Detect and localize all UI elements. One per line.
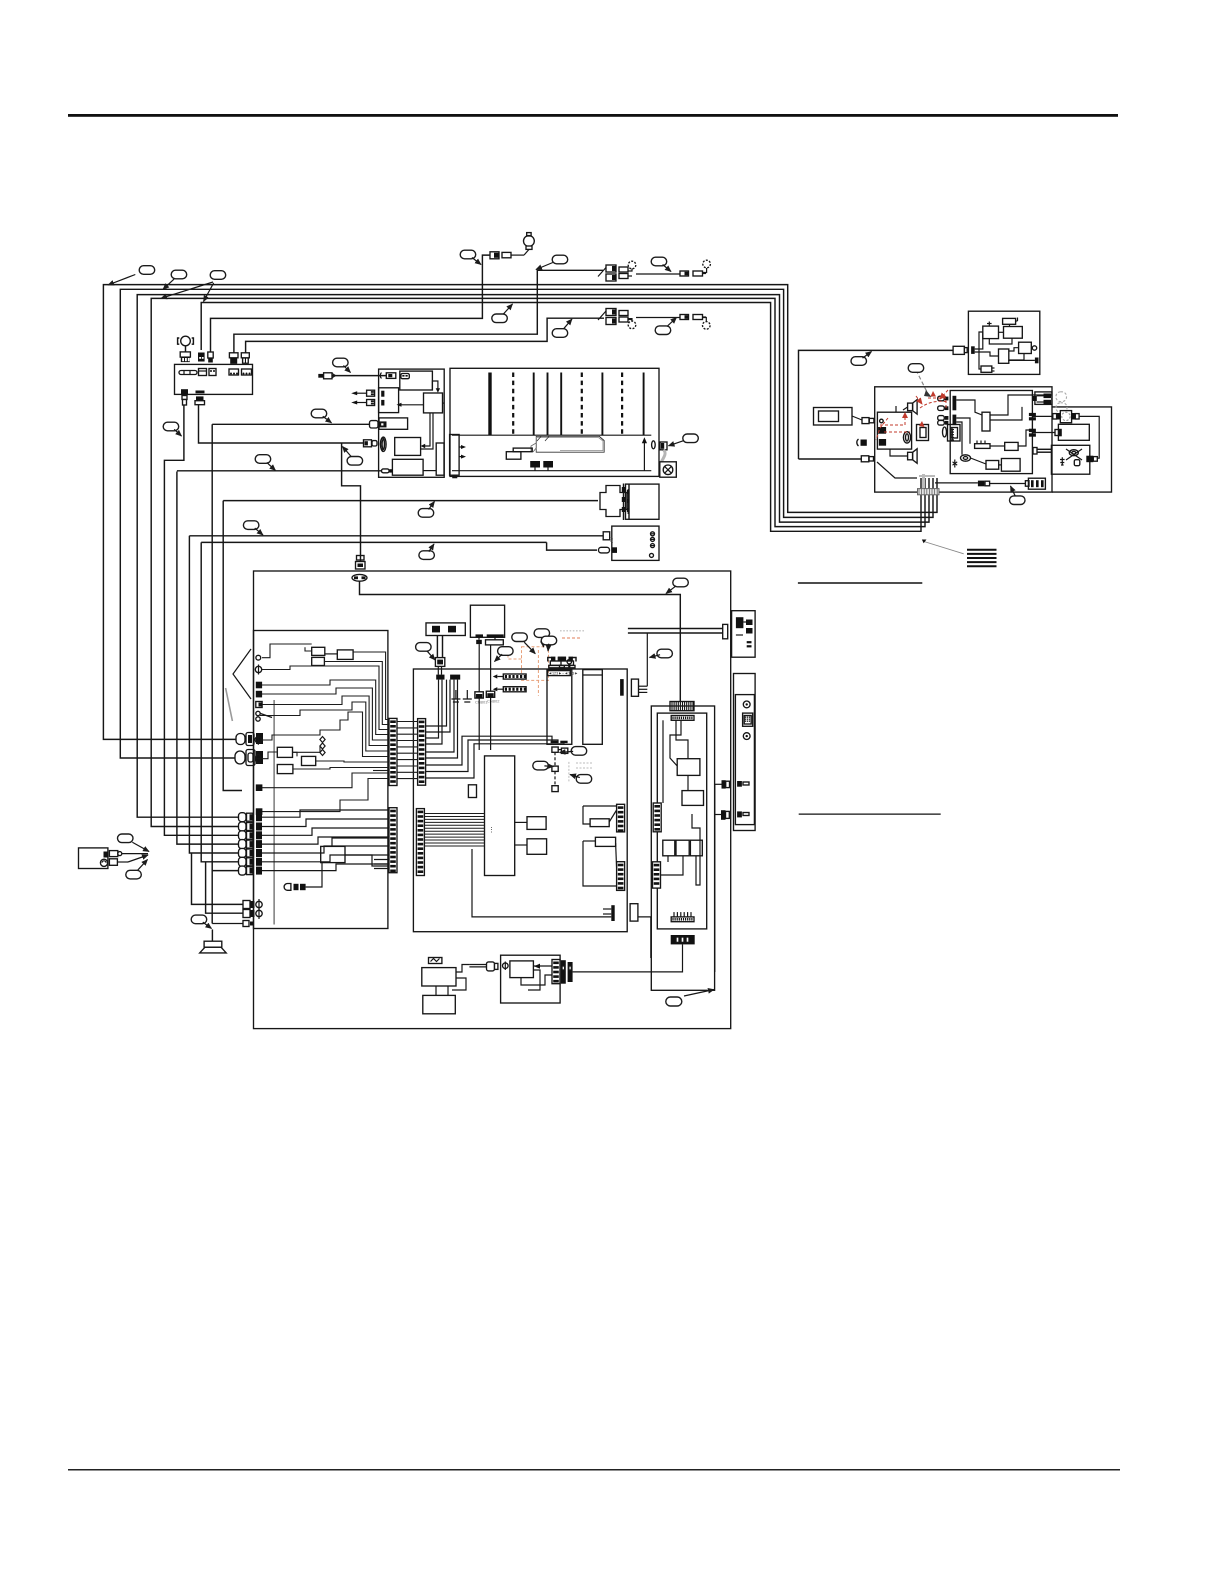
loader ribbon: [435, 636, 444, 667]
wire A out: [935, 482, 978, 484]
earth screw box: [660, 462, 677, 477]
RF modulator block: [732, 611, 756, 658]
amp board C: [950, 391, 1032, 474]
wire relay: [1032, 432, 1055, 434]
connector strip AV CN1: [653, 803, 661, 832]
jack board edge conn 6: [256, 808, 263, 815]
section line A: [798, 582, 922, 584]
jack board edge conn 5: [256, 784, 263, 791]
callout cn3: [576, 775, 592, 784]
reset IC: [468, 785, 476, 798]
IR remote box: [968, 311, 1039, 374]
callout speaker: [191, 915, 207, 924]
wire ir9: [1009, 359, 1035, 361]
callout av plug leader: [429, 544, 434, 552]
sensor cable: [469, 965, 486, 967]
callout E conn: [1010, 496, 1026, 505]
wire reg bottom: [583, 841, 617, 886]
C box 3: [986, 461, 999, 470]
digital main board: [413, 669, 627, 932]
jb beads: [320, 737, 325, 756]
callout loader L leader: [427, 651, 435, 660]
wire row2 to strip: [262, 819, 389, 827]
terminal ring upper A: [628, 261, 636, 271]
callout 1: [139, 266, 155, 275]
wire av5: [667, 856, 669, 862]
callout av wire leader: [255, 528, 263, 535]
C transistor: [953, 460, 958, 468]
ribbon into board: [438, 666, 441, 674]
callout speaker leader: [203, 922, 212, 928]
wire acplug: [852, 416, 862, 420]
CN801 CN802 connectors: [475, 691, 500, 704]
callout cn2: [533, 761, 549, 770]
deck box5 plug: [382, 469, 390, 473]
board top connectors: [436, 675, 460, 680]
deck-CRT arrow 2: [459, 455, 466, 459]
wire c5: [990, 445, 1005, 447]
C pin header: [951, 428, 955, 440]
antenna matching transformer: [490, 250, 529, 259]
wire c4: [956, 418, 970, 444]
wire c8: [971, 458, 987, 464]
callout deflect leader: [267, 462, 276, 470]
wire jack row B: [206, 862, 243, 913]
wire ir4: [989, 338, 1012, 344]
wire cpu-flash: [515, 844, 527, 846]
wire deck b2-right: [443, 402, 445, 404]
wire spk1: [895, 406, 897, 412]
callout twin lower R leader: [667, 318, 676, 327]
callout tuner 1: [512, 633, 528, 642]
wire DVD-mech run: [223, 500, 598, 502]
CRT socket connectors: [506, 448, 553, 471]
IR box3: [1004, 327, 1023, 339]
ribbon lines: [424, 814, 484, 846]
wire reg1: [583, 806, 590, 824]
DVD loader unit: [470, 605, 504, 637]
callout bus: [492, 314, 508, 323]
wire av2: [670, 720, 681, 766]
deck twin plug lower: [351, 400, 374, 406]
cassette icon: [401, 374, 409, 379]
gray leader to board A: [916, 370, 929, 395]
callout ac 1: [118, 834, 134, 843]
connector strip CN102: [418, 719, 426, 786]
wire cpu to out: [472, 849, 611, 917]
svg-text:⋮: ⋮: [488, 827, 495, 834]
DVD mech cross connector: [600, 486, 627, 517]
timer IC: [510, 961, 534, 978]
wire motor left: [1032, 415, 1052, 417]
reg box 2: [595, 837, 615, 846]
connector strip AV CN2: [653, 862, 661, 888]
connector hatched top of AV board: [670, 702, 694, 711]
page top rule: [68, 114, 1118, 117]
callout svideo leader: [666, 586, 676, 594]
jb lamp: [284, 884, 306, 891]
wire harness drop 164: [164, 405, 244, 835]
CRT lower shelf line: [452, 470, 651, 472]
IR box6: [981, 366, 992, 372]
jack board edge jack 2: [255, 665, 261, 675]
DVD mech ribbon bars: [622, 484, 629, 521]
callout cn3 leader: [570, 775, 580, 778]
wire c7: [956, 422, 962, 455]
antenna terminal circle: [524, 233, 535, 250]
flash: [527, 839, 547, 855]
VCR deck unit box: [379, 369, 445, 477]
connector J9 harness row: [239, 866, 263, 875]
CRT back panel box: [450, 368, 659, 476]
wire row5 to strip: [262, 846, 389, 853]
deck box5 pin: [389, 469, 392, 472]
AV board top pins: [671, 716, 694, 721]
wire harness bus line 5: [201, 303, 921, 532]
wire c3: [990, 407, 1022, 420]
connector J3 harness row: [239, 813, 263, 822]
wire harness bus line 2: [120, 289, 933, 758]
CRT shelf line: [452, 434, 651, 436]
connector J7 harness row: [239, 849, 263, 858]
tuner bottom pins: [551, 741, 568, 743]
jb system control box: [321, 846, 345, 862]
wire A out 2: [990, 483, 1026, 485]
reg box 1: [590, 819, 609, 827]
battery box: [423, 995, 456, 1013]
callout panel wire leader: [174, 429, 181, 436]
wire row4 to strip: [262, 837, 389, 844]
callout bottom AV: [666, 997, 682, 1006]
dashed screw circles: [1056, 392, 1067, 413]
connector J6 harness row: [239, 840, 263, 849]
wire twin-lead lower: [246, 318, 604, 353]
callout tuner 3 leader: [547, 644, 550, 651]
wire deflection run: [177, 470, 382, 472]
svg-text:AV: AV: [609, 537, 614, 543]
RCA pin: [567, 660, 571, 668]
descent wires to CN102: [426, 680, 458, 758]
digital out connector assy: [1035, 392, 1052, 405]
rear board plugs: [721, 780, 730, 820]
wire crt ground: [643, 442, 645, 471]
AC arrow: [128, 855, 148, 862]
callout cn1: [571, 747, 587, 756]
power/amp board A: [875, 387, 1052, 492]
wire harness drop 212 (speaker): [211, 424, 213, 923]
IR right conn: [1035, 358, 1039, 364]
A out connector: [978, 481, 990, 487]
wire enclosure right: [714, 784, 716, 972]
callout twin upper R: [651, 257, 667, 266]
wire to out enclosure: [638, 917, 651, 958]
wire speaker-jack run: [212, 423, 369, 425]
callout antenna leader: [472, 258, 481, 265]
callout mech wire: [418, 509, 434, 518]
panel connector P3: [208, 352, 213, 363]
wire spk2: [890, 449, 908, 456]
DVD mech board: [626, 484, 660, 519]
callout panel wire: [163, 422, 179, 431]
wire spk1b: [903, 407, 908, 410]
callout deck input leader: [343, 366, 350, 373]
wire harness bus line 3: [137, 295, 929, 818]
callout spk jack leader: [323, 416, 332, 423]
deck box4: [395, 438, 421, 456]
deck aux plug assy: [318, 373, 335, 379]
connector strip CN104: [617, 862, 625, 891]
callout twin lower L: [552, 329, 568, 338]
AV box white connector: [603, 532, 614, 543]
callout rca: [498, 647, 513, 656]
IR box4: [1019, 342, 1032, 353]
IF shield can: [583, 670, 603, 745]
callout tuner 2: [534, 629, 550, 638]
leader bottom AV: [684, 990, 714, 997]
terminal ring lower A: [628, 319, 636, 329]
timer black strip: [561, 960, 573, 984]
callout anode: [683, 434, 699, 443]
C IC with pins: [975, 441, 990, 449]
wire harness bus line 1: [103, 285, 937, 740]
jb relay 3: [337, 650, 353, 660]
wire power bottom: [799, 458, 862, 460]
C power block: [1001, 459, 1020, 472]
tuner header: [548, 671, 579, 676]
callout twin upper L leader: [536, 263, 553, 270]
AV plug assembly: [599, 547, 618, 553]
wire motor right: [1079, 416, 1099, 458]
timer circle: [503, 962, 509, 971]
callout 3 second leader: [161, 282, 213, 298]
wire c2: [990, 395, 1052, 415]
AV bottom black connector: [671, 935, 695, 944]
wire row7 to strip: [262, 864, 389, 871]
sensor box: [422, 968, 456, 986]
wire timer1: [533, 965, 552, 967]
connector twin-lead adapter lower: [598, 309, 706, 325]
wire row3 to strip: [262, 828, 389, 835]
wire diag: [877, 462, 917, 478]
CN801/802 down wires: [479, 697, 490, 750]
callout board A: [908, 364, 924, 373]
deck box2: [424, 393, 443, 413]
wire sens3: [447, 986, 449, 995]
panel bottom connector B: [195, 391, 205, 405]
top conn down wires: [426, 680, 442, 744]
loader connector assy: [426, 623, 465, 636]
panel pilot lamp: [178, 336, 194, 362]
terminal lower marks: [737, 781, 749, 817]
wire S-branch down: [342, 443, 361, 562]
C coil: [961, 455, 971, 461]
head drum symbol: [381, 437, 387, 451]
wire plug1: [715, 783, 722, 785]
AC plug B: [109, 859, 128, 866]
coil right conn: [1086, 456, 1097, 463]
wire deck b4-right: [421, 413, 433, 449]
wire av1: [676, 720, 688, 758]
ribbon cable symbol: [967, 550, 997, 566]
jack board edge connectors: [256, 682, 262, 708]
loader feed wires: [479, 637, 495, 640]
wire row6 to strip: [262, 855, 389, 862]
callout mech wire leader: [429, 502, 435, 510]
connector strip CN201: [389, 718, 397, 785]
wire reg2b: [616, 843, 617, 868]
wire av7: [692, 814, 700, 885]
CPU / MPEG IC: [485, 756, 515, 876]
callout anode leader: [669, 441, 684, 446]
wire harness drop 223 (DVD mech): [223, 501, 242, 791]
wire cpu-ram: [515, 821, 527, 823]
jack board edge jack 3: [255, 735, 261, 745]
panel bottom connector A: [181, 389, 188, 405]
svg-text:CN802: CN802: [487, 699, 500, 704]
ground stub 2: [463, 690, 472, 702]
callout ac 2: [126, 870, 142, 879]
headphone jack boards: [917, 425, 961, 442]
coax double cable: [628, 624, 728, 638]
E-type connector: [1025, 478, 1045, 489]
AC inlet box: [79, 848, 108, 869]
section line B: [799, 813, 941, 815]
red arrow lines: [916, 390, 948, 404]
wire antenna input: [211, 255, 490, 352]
board T connector: [603, 904, 638, 921]
callout power wire: [851, 357, 867, 366]
connector J5 harness row: [239, 831, 263, 840]
board B outline: [1052, 407, 1112, 492]
jb relay 1: [312, 647, 325, 655]
degauss relay box: [1058, 424, 1089, 440]
connector twin-lead adapter upper: [598, 265, 706, 281]
callout tuner 2 leader: [542, 637, 543, 647]
degauss coil box: [1051, 445, 1089, 474]
AV small box 2: [676, 840, 689, 856]
wire reg1b: [609, 810, 616, 822]
anode cap connector: [652, 441, 667, 462]
AV small box 3: [690, 840, 702, 856]
connector J2 (round DIN plug): [235, 750, 263, 766]
panel connector P5: [241, 353, 249, 364]
panel connector P4: [229, 353, 238, 364]
wire AV-plug step: [547, 542, 597, 550]
wire jack row A: [192, 853, 244, 904]
callout twin lower R: [655, 326, 671, 335]
jb relay 2: [312, 657, 325, 665]
plug pairs to board C: [938, 396, 957, 425]
jack board edge screws: [256, 711, 272, 721]
AV enclosure: [651, 706, 714, 990]
wire ir3: [1009, 324, 1011, 326]
wire timer3: [528, 970, 540, 990]
panel connector P2: [198, 353, 205, 362]
AV box U1: [677, 759, 700, 776]
RF out connector: [620, 679, 647, 696]
IR box5: [999, 349, 1009, 363]
tuner pin wires: [426, 736, 564, 778]
AC inlet internals: [100, 852, 108, 867]
wire harness drop 189: [189, 536, 244, 853]
wire S-video run: [360, 581, 681, 701]
deck twin plug upper: [351, 390, 374, 396]
jack board inner edge: [273, 700, 275, 925]
wire speaker feed: [212, 923, 243, 925]
connector headphone row: [243, 921, 253, 927]
wire harness drop 177 (to deflection): [177, 472, 244, 845]
chassis top connector: [356, 556, 366, 570]
deck cassette box: [400, 371, 433, 390]
orange dashed highlight: [508, 646, 549, 696]
deck edge bar 1: [436, 443, 444, 475]
connector speaker plug pair: [370, 421, 387, 428]
callout svideo: [673, 578, 689, 587]
timer edge strip: [552, 960, 560, 984]
wire av out to timer: [573, 944, 683, 972]
loader small conns: [476, 640, 503, 692]
callout cn1 leader: [560, 751, 574, 752]
CN dashed links: [552, 747, 568, 792]
side AV jack box: [612, 526, 659, 560]
terminal VGA block: [743, 713, 753, 726]
wire power run: [799, 350, 954, 459]
AC power plug box: [814, 408, 853, 426]
CRT harness fan: [531, 436, 604, 452]
bundle shield connector: [918, 489, 940, 495]
terminal ring upper B: [703, 260, 711, 272]
board A left plugs: [857, 418, 874, 462]
deck box5: [392, 459, 423, 475]
AV small box 1: [663, 840, 675, 856]
wire reg2: [583, 840, 595, 842]
IR box1: [983, 326, 999, 339]
wire ir8: [1009, 354, 1024, 361]
bundle gray band: [919, 474, 935, 488]
terminal ring lower B: [702, 318, 710, 330]
wire row1 to strip: [262, 810, 389, 817]
IR ext plug: [953, 346, 967, 354]
SDRAM: [527, 817, 546, 830]
deck-CRT arrow 1: [459, 445, 466, 449]
jb audio box 2: [302, 756, 316, 765]
callout 1 leader: [108, 275, 135, 286]
wire plug2: [715, 814, 721, 816]
gray dashed labels: [560, 631, 593, 782]
wire ir5: [975, 352, 999, 356]
wire harness bus line 4: [151, 298, 925, 826]
IR box2: [1003, 318, 1016, 324]
relay left conn: [1055, 429, 1062, 437]
CRT stripes: [488, 373, 644, 436]
sensor plug: [487, 962, 498, 971]
callout deflect: [255, 455, 271, 464]
wire AV-plug run: [201, 541, 546, 543]
loader tabs: [476, 634, 504, 637]
callout bus leader: [503, 304, 512, 314]
deck box3: [379, 418, 408, 429]
connector J1 (round DIN plug): [236, 733, 263, 746]
callout 2 leader: [163, 279, 174, 289]
callout rf cable leader: [650, 655, 661, 658]
deck edge bar 2: [450, 435, 460, 478]
connector strip CN202: [389, 808, 397, 873]
connector J8 harness row: [239, 857, 263, 866]
board tie wires: [397, 722, 418, 779]
callout deck input: [333, 358, 349, 367]
wire deck aux input: [332, 375, 386, 377]
wire sens1: [456, 965, 469, 973]
